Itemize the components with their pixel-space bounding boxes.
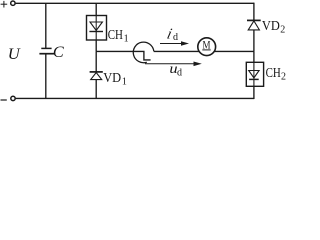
voltage ud arrow bbox=[145, 62, 202, 67]
thyristor symbol inside CH1 bbox=[89, 16, 103, 41]
wire CH1 to node A bbox=[95, 40, 97, 51]
minus terminal sign bbox=[1, 99, 7, 101]
current id arrow bbox=[160, 41, 189, 46]
wire capacitor stem top bbox=[45, 3, 47, 48]
wire bottom rail bbox=[16, 97, 254, 99]
chopper CH1 box bbox=[87, 16, 107, 41]
svg-text:VD: VD bbox=[262, 19, 280, 34]
svg-text:CH: CH bbox=[266, 66, 281, 81]
motor M bbox=[198, 38, 216, 56]
wire load line to motor bbox=[154, 50, 254, 52]
svg-text:CH: CH bbox=[108, 28, 123, 43]
wire right branch top corner bbox=[253, 3, 255, 21]
wire VD1 lead upper bbox=[95, 51, 97, 72]
thyristor symbol inside CH2 bbox=[249, 62, 259, 86]
svg-text:d: d bbox=[173, 32, 178, 43]
wire node A to reactor loop bbox=[96, 51, 150, 60]
svg-text:2: 2 bbox=[281, 72, 286, 83]
wire right branch bottom bbox=[253, 86, 255, 99]
wire CH1 top lead bbox=[95, 3, 97, 15]
svg-text:1: 1 bbox=[122, 77, 127, 88]
svg-text:1: 1 bbox=[124, 33, 129, 44]
terminal circle top bbox=[11, 1, 15, 5]
smoothing reactor loop bbox=[133, 42, 154, 63]
wire VD1 lead lower bbox=[95, 80, 97, 99]
svg-text:C: C bbox=[53, 44, 64, 61]
diode VD2 bbox=[247, 20, 261, 30]
wire top rail bbox=[16, 2, 254, 4]
svg-text:d: d bbox=[177, 68, 182, 79]
svg-text:2: 2 bbox=[280, 24, 285, 35]
svg-text:VD: VD bbox=[103, 71, 121, 86]
plus terminal sign bbox=[1, 1, 8, 8]
chopper CH2 box bbox=[246, 62, 263, 86]
wire VD2 lead lower bbox=[253, 30, 255, 52]
svg-text:U: U bbox=[8, 46, 21, 63]
wire capacitor stem bottom bbox=[45, 54, 47, 99]
diode VD1 bbox=[90, 72, 103, 80]
terminal circle bottom bbox=[11, 96, 15, 100]
capacitor C plates bbox=[39, 48, 54, 53]
wire CH2 top lead bbox=[253, 51, 255, 62]
